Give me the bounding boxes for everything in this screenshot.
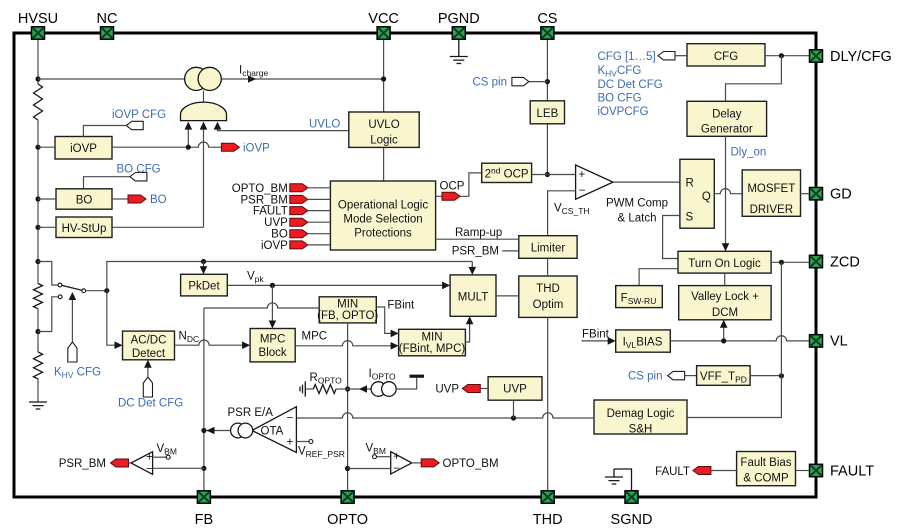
node CS comparator junction [545,172,550,177]
wire Vpk PkDet to MULT [227,284,444,286]
wire BO input [38,198,56,200]
wire iOVP input [38,146,55,148]
flag OCP (red) [442,192,460,200]
svg-text:MIN: MIN [337,299,358,311]
svg-text:iOVPCFG: iOVPCFG [598,106,649,118]
wire switch pivot to junction [86,290,107,292]
node divider top [35,259,40,264]
wire rail to MULT top arrow [471,262,473,270]
svg-text:DRIVER: DRIVER [750,204,793,216]
flag KHV CFG (up) [68,342,77,362]
block CFG [687,44,765,66]
wire Vpk branch to MPC Block [271,285,273,322]
svg-text:Protections: Protections [354,227,412,239]
pin CS [541,27,554,39]
wire Fault Bias to FAULT pin [796,470,811,472]
svg-text:UVLO: UVLO [309,118,340,130]
svg-text:Operational Logic: Operational Logic [338,199,428,211]
wire THD vertical [547,317,549,491]
svg-text:OPTO_BM: OPTO_BM [232,183,288,195]
svg-text:HV-StUp: HV-StUp [62,223,107,235]
svg-text:BO: BO [271,229,288,241]
node PkDet branch [201,259,206,264]
ground SGND [614,469,632,491]
node switch junction [104,288,109,293]
wire CS vertical [546,39,548,175]
svg-text:Fault Bias: Fault Bias [740,457,791,469]
block Limiter [519,236,577,259]
svg-text:MPC: MPC [260,333,286,345]
wire driver to GD pin [801,193,811,195]
block MULT [450,275,496,316]
pin FB [197,491,210,503]
pin OPTO [341,491,354,503]
svg-text:NDC: NDC [179,331,200,345]
svg-text:iOVP: iOVP [261,240,288,252]
block MIN (FB, OPTO) [319,297,376,323]
svg-text:S: S [686,212,694,224]
resistor divider lower [34,352,43,379]
node Vpk branch [270,283,275,288]
flag OPTO_BM (red) [421,459,439,467]
svg-text:THD: THD [536,283,560,295]
wire divider rail (switch to MULT) [107,262,473,291]
wire Dly_on [725,136,727,245]
svg-text:Mode Selection: Mode Selection [343,213,422,225]
wire CFG to DLY/CFG pin [765,55,810,57]
wire UVP to demag wire [513,400,515,418]
svg-text:PWM Comp: PWM Comp [606,198,668,210]
block IVL BIAS [616,330,671,352]
block HV-StUp [56,217,112,238]
wire Turn On Logic to ZCD pin [771,261,810,263]
node iOVP-dome branch [186,145,191,150]
wire ZCD vertical rail to Demag [687,262,781,417]
svg-text:PkDet: PkDet [188,281,220,293]
wire Limiter to THD Optim [547,258,549,276]
wire iOVP arrow into dome [187,128,189,148]
svg-text:CS pin: CS pin [472,77,507,89]
flag DC Det CFG (up) [143,377,152,397]
current source IOPTO [348,388,372,390]
current source OTA output [231,423,246,438]
wire VCC rail [383,39,385,181]
svg-text:FB: FB [195,512,214,528]
ground HVSU divider [29,402,47,409]
wire OTA plus to VREF [296,441,309,443]
pin SGND [625,491,638,503]
svg-text:Valley Lock +: Valley Lock + [691,291,759,303]
node HVSU-Icharge junction [35,76,40,81]
wire CFG to Delay Generator [726,56,782,102]
block MPC Block [250,329,295,362]
svg-text:+: + [287,437,294,449]
block iOVP [55,137,112,160]
node divider mid [35,329,40,334]
svg-text:OPTO: OPTO [327,512,368,528]
wire FB to MIN with hop [204,303,319,491]
svg-text:UVP: UVP [435,384,459,396]
wire Ramp-up [436,238,519,240]
wire PSR_BM to Limiter [502,250,519,252]
svg-text:VCC: VCC [368,11,399,27]
wire iOVP output with hop [112,142,221,147]
node FB-PSRBM junction [201,466,206,471]
svg-text:UVP: UVP [264,217,288,229]
wire UVLO to dome [218,128,349,131]
wire Vcsth to comparator minus [548,191,576,236]
resistor ROPTO [305,388,313,390]
svg-text:Logic: Logic [370,135,398,147]
wire HV-StUp to dome [112,128,204,228]
svg-text:CFG [1…5]: CFG [1…5] [598,51,656,63]
node CFG-delay branch [779,53,784,58]
node BO tap [35,196,40,201]
svg-text:UVLO: UVLO [368,119,399,131]
svg-text:PSR_BM: PSR_BM [59,458,106,470]
svg-text:GD: GD [830,187,852,203]
op-amp PWM comparator [576,165,613,199]
switch KHV contacts [58,283,62,287]
flag BO CFG [130,173,147,181]
pin ZCD [810,255,823,267]
node UVP junction [511,415,516,420]
svg-text:MOSFET: MOSFET [747,183,795,195]
pin GD [810,188,823,200]
svg-text:SGND: SGND [611,512,653,528]
wire OPTO to OPTO_BM comparator [348,468,391,470]
wire IVL BIAS to VL pin with hop [670,336,810,341]
svg-text:LEB: LEB [537,108,559,120]
pin DLY/CFG [810,50,823,62]
svg-text:ROPTO: ROPTO [310,372,343,386]
wire Turn On Logic to Fsw-ru [639,269,678,286]
svg-text:PGND: PGND [438,11,480,27]
svg-text:& Latch: & Latch [618,213,657,225]
block Turn On Logic [678,251,771,273]
wire NDC with hop [175,340,245,345]
flag CS pin (top) [512,77,529,85]
svg-text:iOVP: iOVP [70,143,97,155]
svg-text:BO: BO [76,195,93,207]
wire MIN(FBint,MPC) to MULT [465,322,469,342]
wire FBint into IVL BIAS [582,340,611,342]
supply bar IOPTO [410,375,425,378]
wire switch junction to AC/DC Detect [107,291,117,346]
pin NC [101,27,114,39]
wire divider top to switch contact [38,262,58,286]
wire comparator to R input [613,181,680,183]
wire OPTO vertical [347,323,349,491]
svg-text:DLY/CFG: DLY/CFG [830,49,892,65]
block Delay Generator [687,101,767,136]
svg-text:UVP: UVP [503,384,527,396]
block Operational Logic Mode Selection Protections [330,181,435,250]
wire OPTO_BM output [412,462,421,464]
node VCC-Icharge [381,76,386,81]
svg-text:CS pin: CS pin [628,371,663,383]
svg-text:CS: CS [537,11,557,27]
flag PSR_BM (red) [111,459,129,467]
svg-text:BO: BO [150,194,167,206]
svg-text:KHVCFG: KHVCFG [598,65,642,79]
block Fault Bias & COMP [737,452,796,486]
svg-text:OPTO_BM: OPTO_BM [443,458,499,470]
ground ROPTO (left) [300,381,305,396]
startup control cell (dome) [181,102,227,121]
node CS pin flag junction [545,79,550,84]
block PkDet [181,274,228,296]
wire VBM to OPTO_BM comparator [377,456,391,458]
pin PGND [452,27,465,39]
svg-text:MPC: MPC [302,331,328,343]
wire BO output [112,198,128,200]
pin VCC [377,27,390,39]
svg-text:Vpk: Vpk [247,271,264,285]
block Valley Lock + DCM [679,286,771,320]
node HV-StUp tap [35,225,40,230]
svg-text:FBint: FBint [582,329,610,341]
svg-text:ZCD: ZCD [830,254,860,270]
block Fsw-ru [616,286,663,308]
svg-text:MULT: MULT [458,291,488,303]
svg-text:PSR_BM: PSR_BM [241,194,288,206]
svg-text:Q: Q [702,191,711,203]
node ZCD branch [779,260,784,265]
svg-text:−: − [393,463,400,475]
svg-text:FBint: FBint [387,300,415,312]
block BO [56,189,112,209]
svg-text:VCS_TH: VCS_TH [554,203,590,217]
svg-text:VBM: VBM [157,443,177,457]
svg-text:BO CFG: BO CFG [598,93,642,105]
svg-text:MIN: MIN [421,332,442,344]
block 2nd OCP [482,163,532,182]
block RS latch [680,159,714,228]
svg-text:+: + [579,169,586,181]
block MOSFET DRIVER [742,170,800,216]
svg-text:PSR_BM: PSR_BM [452,246,499,258]
node OPTO-ROPTO junction [345,386,350,391]
pin FAULT [810,464,823,476]
flag iOVP CFG [126,121,143,129]
svg-text:iOVP: iOVP [243,143,270,155]
wire Icharge [38,78,384,80]
block UVP [488,377,542,401]
svg-text:Detect: Detect [132,348,166,360]
flag iOVP (red) [221,143,239,151]
svg-text:VREF_PSR: VREF_PSR [298,446,345,460]
wire MIN(FB,OPTO) to MIN(FBint,MPC) [376,307,393,333]
IC boundary [14,33,816,497]
block AC/DC Detect [123,331,175,360]
current source Icharge [185,67,208,90]
svg-text:Generator: Generator [701,124,753,136]
svg-text:NC: NC [97,11,118,27]
block UVLO Logic [349,112,419,147]
wire current source to startup cell [203,91,205,104]
wire FB to PSR_BM comparator [153,467,204,469]
svg-text:Block: Block [259,347,287,359]
svg-text:AC/DC: AC/DC [131,335,167,347]
wire MULT to THD Optim [496,295,519,297]
wire VFF to ZCD rail [750,375,781,377]
node FB-OTA junction [201,428,206,433]
svg-text:R: R [686,178,694,190]
op-amp OPTO_BM comparator [391,452,412,474]
svg-text:Ramp-up: Ramp-up [455,227,502,239]
svg-text:−: − [146,464,153,476]
svg-text:CFG: CFG [714,51,738,63]
svg-text:FAULT: FAULT [830,463,874,479]
svg-text:Demag Logic: Demag Logic [607,408,675,420]
svg-text:FAULT: FAULT [655,466,690,478]
svg-text:+: + [393,451,400,463]
pin VL [810,335,823,347]
svg-text:Delay: Delay [712,108,742,120]
op-amp PSR_BM comparator [131,452,153,475]
svg-text:Turn On Logic: Turn On Logic [688,258,761,270]
svg-text:KHV CFG: KHV CFG [54,367,101,381]
svg-text:Optim: Optim [533,299,564,311]
resistor R-HVSU upper [34,84,43,120]
svg-text:Limiter: Limiter [531,243,566,255]
svg-text:(FBint, MPC): (FBint, MPC) [399,343,466,355]
wire MPC with hop [295,341,393,346]
block Demag Logic S&H [594,400,687,434]
svg-text:DC Det CFG: DC Det CFG [598,79,663,91]
svg-text:OTA: OTA [261,426,284,438]
svg-text:DCM: DCM [712,307,738,319]
svg-text:THD: THD [533,512,563,528]
wire VBM to PSR_BM comparator [153,456,167,458]
wire HV-StUp input [38,226,56,228]
wire Turn On Logic to Valley Lock [724,273,726,286]
flag BO (red) [128,195,146,203]
pin THD [541,491,554,503]
op-amp PSR E/A OTA [252,407,297,453]
block THD Optim [519,276,577,317]
wire OTA output arrow to FB [206,430,231,432]
svg-text:HVSU: HVSU [18,11,58,27]
wire S input [663,216,680,259]
svg-text:FAULT: FAULT [253,206,288,218]
svg-text:S&H: S&H [629,423,653,435]
resistor divider upper [34,284,43,309]
svg-text:Dly_on: Dly_on [731,147,767,159]
svg-text:VBM: VBM [366,443,386,457]
svg-text:VL: VL [830,334,848,350]
svg-text:BO CFG: BO CFG [117,163,161,175]
svg-text:& COMP: & COMP [743,472,789,484]
wire arrow into PkDet [203,262,205,269]
svg-text:−: − [287,413,294,425]
svg-text:−: − [579,185,586,197]
wire VL rail to Valley Lock arrow [723,326,725,341]
block VFF_TPD [697,366,751,386]
ground PGND [458,39,460,57]
block MIN (FBint, MPC) [399,329,466,356]
svg-text:DC Det CFG: DC Det CFG [118,397,183,409]
flag FAULT (red) [693,467,711,475]
svg-text:(FB, OPTO): (FB, OPTO) [317,310,378,322]
node iOVP tap [35,145,40,150]
flag CS pin (VFF) [668,371,685,379]
block LEB [530,101,564,124]
svg-text:iOVP CFG: iOVP CFG [112,109,166,121]
wire Q output with hop [714,189,742,194]
svg-text:OCP: OCP [440,181,465,193]
switch KHV lever [62,285,82,290]
pin HVSU [32,27,45,39]
svg-text:IOPTO: IOPTO [369,368,397,382]
flag UVP (red) [462,385,480,393]
svg-text:+: + [146,452,153,464]
wire Demag to OTA minus with hops [296,413,594,418]
flag CFG input [658,52,675,60]
node VFF-ZCD junction [779,373,784,378]
wire OCP output [436,173,482,196]
svg-text:Icharge: Icharge [239,65,268,79]
node VL valley branch [721,338,726,343]
svg-text:PSR E/A: PSR E/A [228,407,274,419]
wire HVSU vertical rail [37,39,39,402]
node OPTO-comparator junction [345,466,350,471]
wire 2nd OCP to comparator [532,174,576,176]
wire divider mid to switch contact [38,297,58,332]
